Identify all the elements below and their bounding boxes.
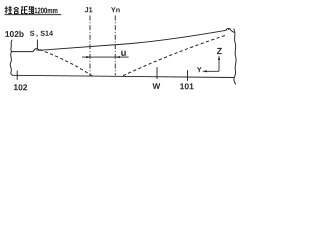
svg-text:102: 102 bbox=[13, 82, 27, 92]
svg-text:Y: Y bbox=[197, 65, 202, 74]
svg-text:102b: 102b bbox=[5, 29, 24, 39]
svg-text:J1: J1 bbox=[85, 5, 93, 14]
svg-text:101: 101 bbox=[180, 81, 194, 91]
svg-text:Z: Z bbox=[217, 46, 223, 56]
svg-text:S: S bbox=[30, 29, 35, 38]
svg-text:u: u bbox=[121, 48, 127, 59]
svg-text:1200mm: 1200mm bbox=[34, 6, 57, 15]
svg-text:Yn: Yn bbox=[111, 5, 120, 14]
svg-text:W: W bbox=[153, 82, 161, 91]
svg-text:S14: S14 bbox=[40, 29, 53, 38]
svg-text:,: , bbox=[36, 29, 38, 38]
